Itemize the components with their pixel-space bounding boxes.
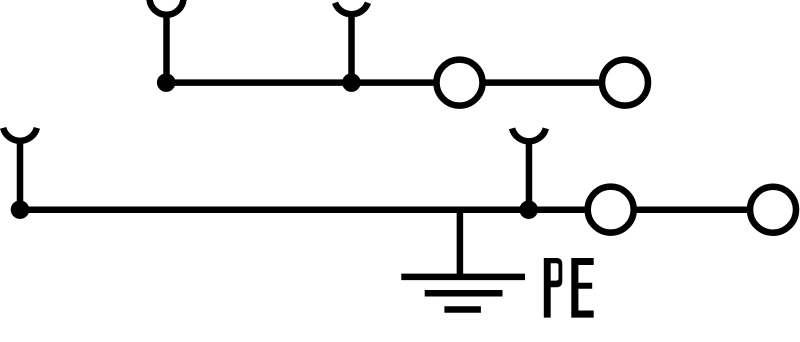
wire (bottom row: long horizontal) (20, 206, 585, 213)
wire (bottom row: between terminal circles) (636, 206, 748, 213)
terminal circle X1 (top row) (437, 60, 483, 106)
node junction dot (bottom wire, PE tap) (519, 200, 538, 219)
terminal circle X2 (top row, right) (602, 60, 648, 106)
node junction dot (bottom wire, left) (11, 200, 30, 219)
label PE (544, 258, 594, 318)
clamp contact K3 (bottom row, left) (3, 128, 37, 210)
clamp contact K2 (top row, middle) (335, 3, 368, 83)
wire (top row: between terminal circles) (484, 79, 600, 86)
wire (top row: dot1 to dot2) (166, 79, 351, 86)
wire (ground stem) (457, 210, 464, 277)
node junction dot (top wire, left) (157, 73, 176, 92)
wire (top row: dot2 to terminal circle) (352, 79, 435, 86)
ground symbol (earth bars) (401, 277, 525, 310)
node junction dot (top wire, middle) (342, 73, 361, 92)
clamp contact K1 (top row, left) (150, 0, 184, 83)
terminal circle X3 (bottom row) (588, 187, 634, 233)
clamp contact K4 (bottom row, middle) (512, 128, 546, 209)
terminal circle X4 (bottom row, right edge) (750, 187, 796, 233)
